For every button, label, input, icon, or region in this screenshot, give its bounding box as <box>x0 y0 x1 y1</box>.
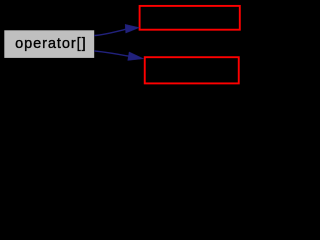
node red bottom <box>145 57 239 83</box>
node operator[] <box>4 30 95 59</box>
wire edge to top node <box>94 24 139 35</box>
svg-text:operator[]: operator[] <box>15 36 86 52</box>
wire edge to bottom node <box>94 51 144 61</box>
node red top <box>140 6 240 30</box>
